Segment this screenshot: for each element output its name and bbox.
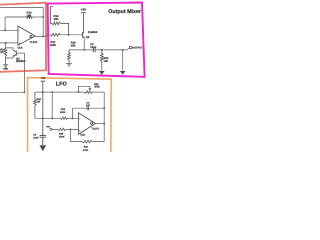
svg-text:Output Mixer: Output Mixer [108,9,141,15]
ground GND2 [66,63,72,66]
wire top-to-minus vertical [51,92,53,118]
resistor R17 [50,33,61,36]
svg-text:470K: 470K [94,86,100,89]
resistor R15 [4,48,7,65]
output connector [127,48,130,50]
svg-text:Q6: Q6 [86,36,90,39]
svg-text:LFO: LFO [56,82,68,88]
resistor R20 [100,50,103,71]
svg-text:10K: 10K [104,60,109,63]
svg-text:R23: R23 [61,108,66,111]
resistor R23 [60,117,68,119]
svg-text:10uF: 10uF [33,136,39,139]
svg-text:R26: R26 [84,145,89,148]
LFO box (orange) [28,78,112,152]
resistor R16 [50,7,68,35]
resistor R14 [5,16,32,19]
svg-text:10K: 10K [27,14,32,17]
svg-text:-: - [79,118,80,120]
svg-text:+9V: +9V [46,125,50,128]
svg-text:GND: GND [3,67,8,70]
wire non-inverting input [0,43,18,48]
transistor Q6 [83,32,85,38]
svg-text:C6: C6 [87,101,91,104]
capacitor C2 [93,48,95,53]
wire top rail [0,7,43,9]
wire inverting input [0,17,18,30]
ground wire B [122,50,124,71]
wire LFO top rail [35,91,104,93]
svg-text:TL074: TL074 [30,41,38,44]
svg-text:10uF: 10uF [90,46,96,49]
svg-text:+9V: +9V [81,8,86,12]
tremolo section box (salmon) [0,3,46,72]
svg-text:1K: 1K [0,51,3,54]
svg-text:470K: 470K [83,149,89,152]
svg-text:100K: 100K [59,135,65,138]
wire feedback vertical [42,8,44,37]
wire feedback to + input [71,129,105,141]
svg-text:1M: 1M [37,101,40,104]
transistor Q4 [6,48,13,58]
wire output rail [69,49,127,51]
op-amp U1A [18,26,35,45]
ground arrow B [120,71,126,75]
Output Mixer box (magenta) [48,3,145,77]
wire inverting input LFO [35,117,79,119]
bias port [50,128,52,130]
capacitor C5 [40,118,46,145]
svg-text:U1A: U1A [18,47,23,50]
wire base run [61,34,83,36]
resistor R25 [58,128,67,130]
resistor R26 [82,140,92,143]
wire R16 top stub [50,6,53,8]
op-amp U1D [78,113,95,134]
svg-text:1uF: 1uF [86,104,91,107]
wire Q4 base to LFO [24,92,26,94]
svg-text:10K: 10K [54,18,59,21]
wire mixer input [46,35,50,37]
ground GND1 [3,65,9,67]
resistor R19 emitter load [68,50,71,64]
wire cap feedback [73,108,105,118]
ground arrow LFO [40,145,47,151]
capacitor C6 [87,106,88,110]
svg-text:100K: 100K [50,44,56,47]
svg-text:-: - [19,29,20,32]
svg-text:R24: R24 [37,98,42,101]
svg-text:OUTPUT: OUTPUT [132,47,143,50]
svg-text:100K: 100K [60,111,66,114]
wire feedback loop right [103,92,105,142]
svg-text:10K: 10K [71,45,76,48]
wire op-amp output [35,35,46,37]
resistor R24 [34,92,37,118]
wire LFO output [95,123,104,125]
wire non-inverting input LFO [52,128,78,130]
ground arrow A [99,71,105,75]
svg-text:R25: R25 [59,132,64,135]
svg-text:TL074: TL074 [92,127,100,130]
svg-text:C5: C5 [33,134,37,137]
rheostat R22 [84,91,92,94]
wire emitter down [83,38,85,50]
svg-text:PN4250: PN4250 [88,31,98,34]
svg-text:U1D: U1D [80,133,85,136]
svg-text:+9V: +9V [41,77,46,80]
